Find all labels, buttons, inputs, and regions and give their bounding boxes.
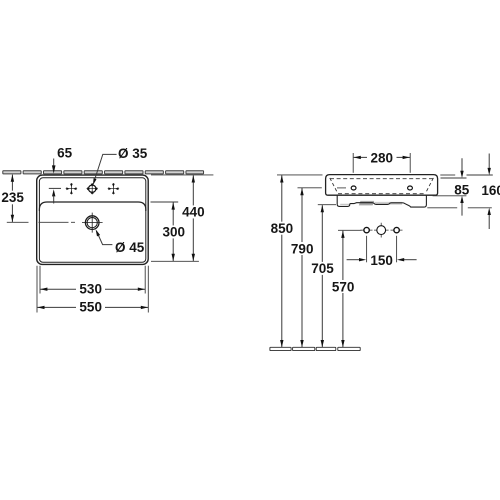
drain circle centre xyxy=(377,226,386,235)
svg-text:530: 530 xyxy=(79,281,102,296)
dimension 790 xyxy=(298,187,322,189)
dimension 280 xyxy=(352,153,354,173)
svg-text:150: 150 xyxy=(370,253,393,268)
svg-text:Ø 45: Ø 45 xyxy=(115,240,145,255)
dimension 300 xyxy=(151,201,179,203)
basin dashed slant right xyxy=(426,178,433,192)
dimension 705 xyxy=(318,204,336,206)
bowl front edge xyxy=(39,202,145,211)
svg-text:850: 850 xyxy=(271,221,294,236)
basin outer rim xyxy=(37,175,149,264)
drain centre extension line xyxy=(7,221,75,223)
centre line dash left of fixing hole xyxy=(337,187,346,189)
basin body xyxy=(326,175,438,196)
dimension 570 xyxy=(338,229,362,231)
drain fixing circles centre lines xyxy=(361,223,403,238)
dimension 550 xyxy=(36,266,38,313)
basin top dashed line xyxy=(330,178,433,180)
svg-text:550: 550 xyxy=(79,300,102,315)
fixing hole right xyxy=(408,186,413,190)
faucet hole cross right xyxy=(108,183,119,194)
dimension 440 xyxy=(151,174,213,176)
dimension 530 xyxy=(39,266,41,294)
svg-text:Ø 35: Ø 35 xyxy=(118,146,148,161)
svg-text:280: 280 xyxy=(371,150,394,165)
dimension 850 xyxy=(277,174,323,176)
dimension 150 xyxy=(366,236,368,262)
drain hole D45 xyxy=(82,213,103,233)
leader line D35 xyxy=(94,154,117,182)
dimension 235 xyxy=(11,175,13,222)
fixing hole left xyxy=(351,186,356,190)
svg-text:300: 300 xyxy=(163,225,186,240)
svg-text:235: 235 xyxy=(1,190,24,205)
svg-text:160: 160 xyxy=(481,183,500,198)
dimension 160 xyxy=(427,207,457,209)
hidden edge dashed line above shroud xyxy=(338,193,426,195)
floor tiles xyxy=(270,347,360,350)
svg-text:85: 85 xyxy=(454,182,470,197)
svg-text:790: 790 xyxy=(291,241,314,256)
basin inner rim xyxy=(39,178,145,262)
drain circle small right xyxy=(394,227,399,232)
svg-text:570: 570 xyxy=(332,279,355,294)
leader line D45 xyxy=(99,236,113,245)
svg-text:705: 705 xyxy=(311,261,334,276)
faucet hole cross centre with circle (hole D35) xyxy=(87,183,98,194)
svg-text:440: 440 xyxy=(182,205,205,220)
wall tile strip xyxy=(3,171,204,174)
faucet hole cross left xyxy=(66,183,77,194)
trap shroud outline xyxy=(337,195,426,207)
svg-text:65: 65 xyxy=(57,146,73,161)
dimension 85 xyxy=(440,174,455,176)
drain circle small left xyxy=(364,227,369,232)
basin dashed slant left xyxy=(330,178,337,192)
trap shroud grey patches xyxy=(359,201,374,206)
